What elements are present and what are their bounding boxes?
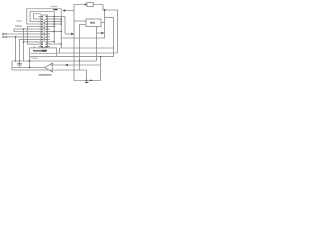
junction dots y61: [15, 60, 16, 61]
box B inner text: [33, 50, 47, 52]
stub x59.5: [59, 48, 61, 53]
vertical x23.5 row29 to y61: [23, 29, 25, 61]
component U2 label: [90, 22, 95, 24]
wire IC right row 24: [50, 23, 61, 25]
junction dot (86.5,80.5): [86, 80, 88, 82]
net y48: [60, 47, 114, 49]
junction dots IC right grid: [53, 16, 55, 18]
box B left edge extension: [29, 57, 31, 68]
op-amp U3: [45, 63, 53, 72]
net y53: [57, 52, 118, 54]
IC U1 pin numbers left column: [41, 16, 43, 47]
wire top-left bus 1: [27, 9, 62, 24]
junction dot (85.5,4.5): [85, 4, 87, 6]
label text above: [51, 6, 58, 7]
wire arrow net A3: [97, 32, 104, 34]
opamp plus input net y65: [53, 64, 101, 66]
wire IC right row 19: [50, 18, 61, 20]
junction dot output: [29, 67, 31, 69]
component U2 box: [86, 19, 101, 27]
input arrow A: [5, 33, 7, 34]
bottom rail y80.5: [74, 80, 101, 82]
input arrow B: [5, 36, 7, 37]
label text top-left: [15, 25, 22, 27]
wire row41.9: [24, 41, 39, 43]
arrowhead A3: [101, 32, 104, 34]
output net y67.5: [12, 67, 45, 69]
rail to x113.6: [105, 18, 114, 57]
wire arrow net A1: [64, 10, 75, 12]
op-amp label: [39, 74, 52, 76]
wire arrow net A2: [65, 33, 73, 35]
box B top stub: [33, 47, 35, 48]
net y70 inverting: [12, 69, 87, 71]
component U2 bottom net: [96, 27, 98, 61]
power rail x74: [74, 5, 103, 81]
component U2 right pin: [101, 22, 105, 24]
box B (display module): [30, 48, 57, 57]
feedback left x12: [11, 61, 13, 70]
wire top-left bus 2: [30, 12, 54, 22]
wire IC right row 26.5: [50, 26, 54, 28]
vertical bus V1: [50, 12, 54, 42]
ground tick below: [85, 82, 88, 83]
arrowhead A4: [65, 64, 68, 66]
wire IC right row 31.5: [50, 31, 61, 33]
rail x104.6: [61, 10, 104, 38]
net y61: [12, 60, 97, 62]
left input wire A: [4, 33, 39, 35]
vertical x86.5: [86, 70, 88, 81]
left input wire B: [4, 36, 39, 38]
value text right: [90, 80, 93, 81]
junction dot (100.6,56.6): [100, 56, 102, 58]
loop wire row26.5 to row44.2 via x27.5: [28, 27, 39, 45]
resistor R1: [87, 2, 93, 6]
net y56.6: [57, 56, 114, 58]
IC U1 body: [41, 15, 48, 48]
junction dots left branches: [15, 36, 17, 38]
capacitor C1 plates: [17, 64, 22, 65]
IC U1 pin numbers right column: [46, 16, 48, 47]
box B inner line: [31, 52, 57, 54]
vertical bus V2: [60, 9, 62, 48]
wire row39.4: [20, 39, 39, 61]
box B sub label: [31, 58, 38, 59]
input terminal B: [2, 36, 4, 38]
component U2 left pin 1: [74, 20, 86, 22]
IC U1 inner label: [44, 19, 45, 42]
arrowhead A2: [71, 33, 74, 35]
component U2 left pin 2: [80, 25, 87, 71]
wire IC right row 21.5: [50, 21, 61, 23]
arrowhead A1: [62, 9, 65, 11]
vertical x100.6: [100, 57, 102, 81]
rail x103 down: [103, 5, 118, 54]
vertical bus V3: [64, 17, 66, 35]
input terminal A: [2, 33, 4, 35]
wire top-left bus 3: [34, 14, 42, 19]
branch x15.5: [15, 37, 17, 61]
wire IC right row 44: [50, 43, 61, 45]
IC U1 pins: [39, 17, 51, 47]
wire IC right row 16.5: [50, 16, 65, 18]
loop bracket rows 29/31.5: [14, 29, 39, 32]
junction dot (104.6,10): [104, 9, 106, 11]
cap C1 stubs: [19, 61, 21, 64]
op-amp input marks: [50, 65, 52, 70]
junction dot (54,9.5) bar: [53, 9, 57, 10]
